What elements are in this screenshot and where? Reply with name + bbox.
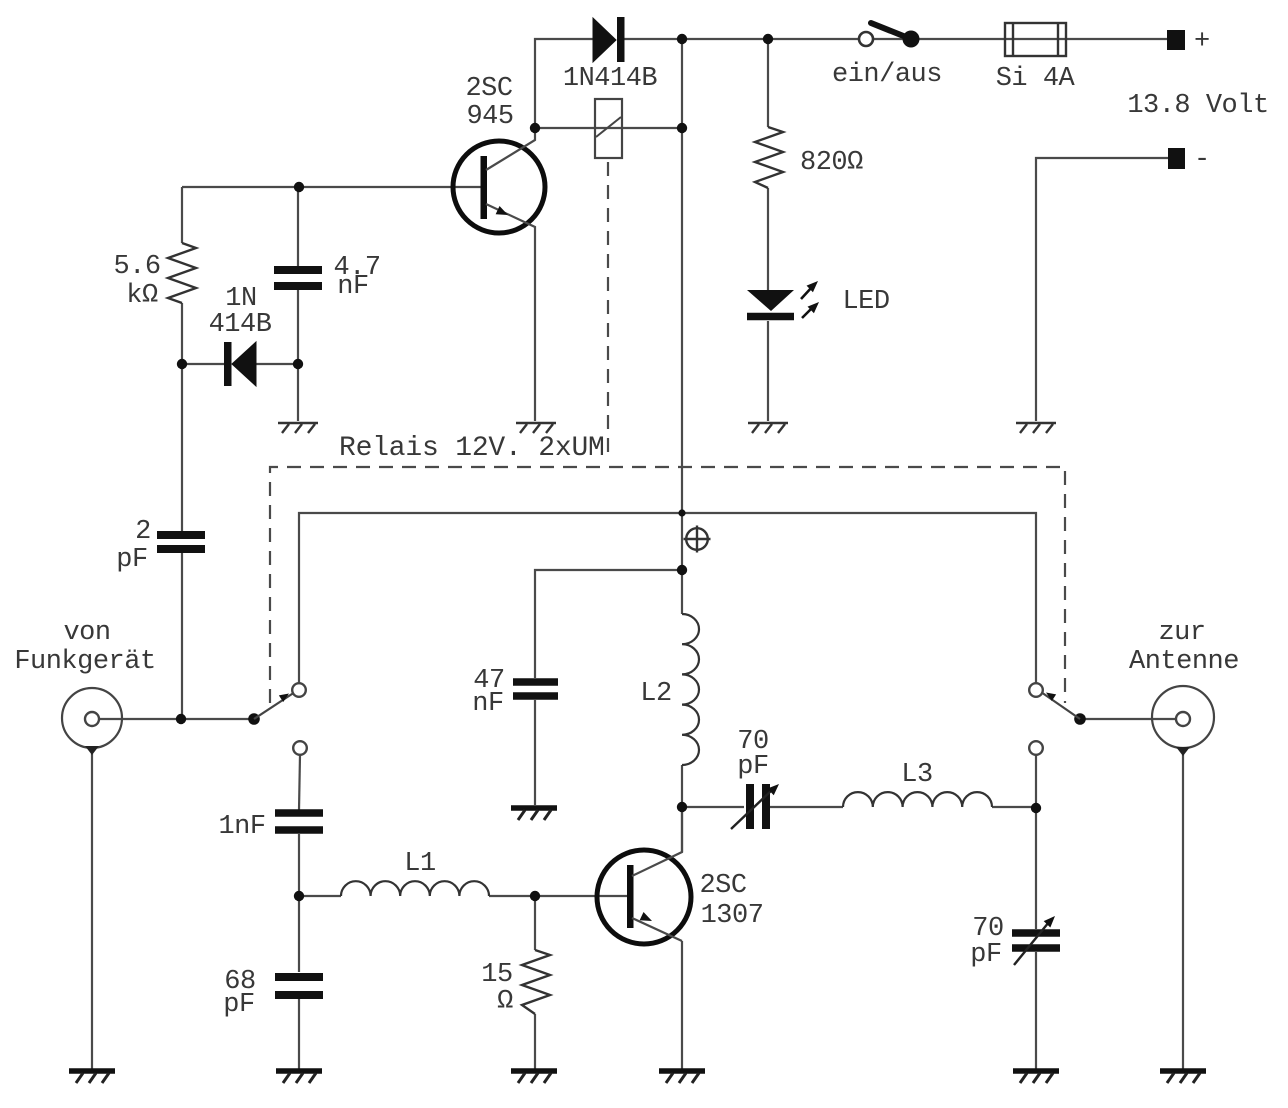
resistor R1 5.6k: [113, 243, 196, 311]
wire 1nF to L1 node: [298, 834, 300, 896]
trimmer capacitor C7 70pF right: [970, 913, 1060, 970]
wire diode to +13.8V terminal: [624, 38, 1167, 40]
ground BNC out: [1160, 1071, 1206, 1083]
wire relay NC right contact down: [1035, 755, 1037, 807]
inductor L3: [843, 760, 992, 807]
connector BNC zur Antenne: [1129, 618, 1239, 756]
capacitor C4 1nF: [218, 812, 323, 842]
switch ein/aus: [832, 23, 942, 90]
trimmer capacitor C6 70pF: [731, 727, 782, 829]
svg-text:L3: L3: [901, 760, 932, 790]
junction 2pF at BNC row: [176, 714, 186, 724]
junction bypass crossing: [678, 509, 685, 516]
wire 820ohm column: [767, 39, 769, 421]
wire L1 node to 68pF: [298, 896, 300, 972]
svg-text:pF: pF: [737, 752, 768, 782]
terminal minus: [1168, 145, 1210, 175]
svg-text:Si 4A: Si 4A: [996, 64, 1076, 94]
svg-text:1307: 1307: [701, 901, 764, 931]
junction L1 15ohm: [530, 891, 540, 901]
ground under LED: [748, 423, 788, 433]
ground under Q2 emitter: [659, 1071, 705, 1083]
ground on minus rail: [1016, 423, 1056, 433]
terminal plus: [1167, 27, 1210, 57]
svg-text:pF: pF: [223, 990, 254, 1020]
svg-text:Ω: Ω: [497, 987, 513, 1017]
fuse Si 4A: [996, 23, 1076, 94]
svg-text:2SC: 2SC: [699, 871, 746, 901]
wire 68pF to ground: [298, 999, 300, 1069]
resistor R2 820ohm: [755, 127, 863, 188]
wire 15ohm leads: [534, 896, 536, 1069]
wire L3 to antenna node: [992, 806, 1036, 808]
capacitor C5 68pF: [223, 967, 323, 1020]
wire collector node to trimmer: [682, 806, 744, 808]
svg-text:+: +: [1194, 27, 1210, 57]
svg-text:ein/aus: ein/aus: [832, 60, 942, 90]
ground under 68pF: [276, 1071, 322, 1083]
svg-text:13.8 Volt: 13.8 Volt: [1127, 91, 1268, 121]
svg-text:nF: nF: [337, 272, 368, 302]
inductor L1: [341, 849, 489, 896]
svg-text:Antenne: Antenne: [1129, 647, 1239, 677]
svg-text:L1: L1: [404, 849, 435, 879]
wire L2 bottom to collector node: [681, 765, 683, 852]
wire BNC in ground lead: [91, 750, 93, 1069]
wire antenna node to 70pF trimmer: [1035, 807, 1037, 929]
junction collector node L2: [677, 802, 687, 812]
capacitor C2 2pF: [116, 517, 205, 575]
svg-text:820Ω: 820Ω: [800, 148, 863, 178]
junction antenna node L3: [1031, 803, 1041, 813]
capacitor C1 4.7nF: [274, 253, 381, 302]
svg-text:Relais 12V. 2xUM: Relais 12V. 2xUM: [339, 433, 605, 464]
svg-text:LED: LED: [842, 287, 889, 317]
transistor Q1 2SC945: [453, 74, 545, 421]
junction relay row right: [677, 123, 687, 133]
svg-text:5.6: 5.6: [113, 252, 160, 282]
junction relay row left: [530, 123, 540, 133]
wire top rail from collector corner to diode: [535, 39, 593, 128]
wire relay coil row: [535, 127, 682, 129]
wire Q2 emitter to ground: [681, 941, 683, 1069]
junction diode D1 right: [293, 359, 303, 369]
svg-text:945: 945: [466, 102, 513, 132]
inductor L2: [640, 614, 699, 765]
connector BNC von Funkgeraet: [14, 618, 155, 755]
wire relay NC contact to 1nF: [299, 755, 300, 810]
ground under 47nF: [511, 808, 557, 820]
svg-text:pF: pF: [116, 545, 147, 575]
wire 2pF leads: [181, 364, 183, 719]
wire 5.6k leads: [181, 187, 183, 364]
ground under Q1 emitter: [516, 423, 556, 433]
relay switch S1a left: [248, 683, 307, 755]
wire 47nF to ground: [534, 700, 536, 805]
junction top rail at 820ohm: [763, 34, 773, 44]
svg-text:15: 15: [481, 960, 512, 990]
wire dashed linkage box: [270, 467, 1065, 703]
wire supply column x=682 down to L2: [681, 39, 683, 614]
wire dashed relay linkage from coil: [607, 162, 609, 460]
svg-text:414B: 414B: [209, 310, 272, 340]
wire diode D1 row: [182, 363, 298, 365]
junction 1nF L1: [294, 891, 304, 901]
svg-text:nF: nF: [472, 689, 503, 719]
wire L1 leads: [299, 895, 628, 897]
wire 70pF to ground: [1035, 952, 1037, 1069]
svg-text:2: 2: [135, 517, 151, 547]
junction Q1 base / 4.7nF: [294, 182, 304, 192]
node crosshair: [684, 526, 711, 553]
capacitor C3 47nF: [472, 666, 558, 719]
transistor Q2 2SC1307: [597, 807, 763, 944]
wire 47nF top link: [535, 570, 682, 678]
relay K1 coil: [595, 99, 622, 158]
wire 4.7nF leads: [297, 187, 299, 421]
resistor R3 15ohm: [481, 950, 550, 1017]
svg-text:kΩ: kΩ: [126, 281, 158, 311]
ground BNC in: [69, 1071, 115, 1083]
svg-text:L2: L2: [640, 679, 671, 709]
svg-text:von: von: [63, 618, 110, 648]
svg-text:zur: zur: [1158, 618, 1205, 648]
svg-text:Funkgerät: Funkgerät: [14, 647, 155, 677]
ground under 70pF right: [1013, 1071, 1059, 1083]
ground under 4.7nF: [278, 423, 318, 433]
wire BNC out ground lead: [1182, 750, 1184, 1069]
wire minus rail: [1036, 158, 1168, 421]
diode D2 1N414B top: [563, 17, 658, 94]
svg-text:2SC: 2SC: [465, 74, 512, 104]
svg-text:pF: pF: [970, 940, 1001, 970]
svg-text:1N414B: 1N414B: [563, 64, 658, 94]
junction 47nF link: [677, 565, 687, 575]
wire Q1 base: [182, 186, 484, 188]
wire bypass line: [299, 513, 1036, 683]
wire trimmer to L3: [770, 806, 843, 808]
diode D1 1N414B left: [209, 284, 272, 386]
wire switch pivot right to BNC out: [1080, 718, 1176, 720]
svg-text:1nF: 1nF: [218, 812, 265, 842]
relay switch S1b right: [1029, 683, 1086, 755]
ground under 15ohm: [511, 1071, 557, 1083]
wire BNC in to switch pivot: [99, 718, 254, 720]
svg-text:-: -: [1194, 145, 1210, 175]
LED D3: [747, 278, 890, 318]
junction diode D1 left: [177, 359, 187, 369]
junction top rail at supply column: [677, 34, 687, 44]
